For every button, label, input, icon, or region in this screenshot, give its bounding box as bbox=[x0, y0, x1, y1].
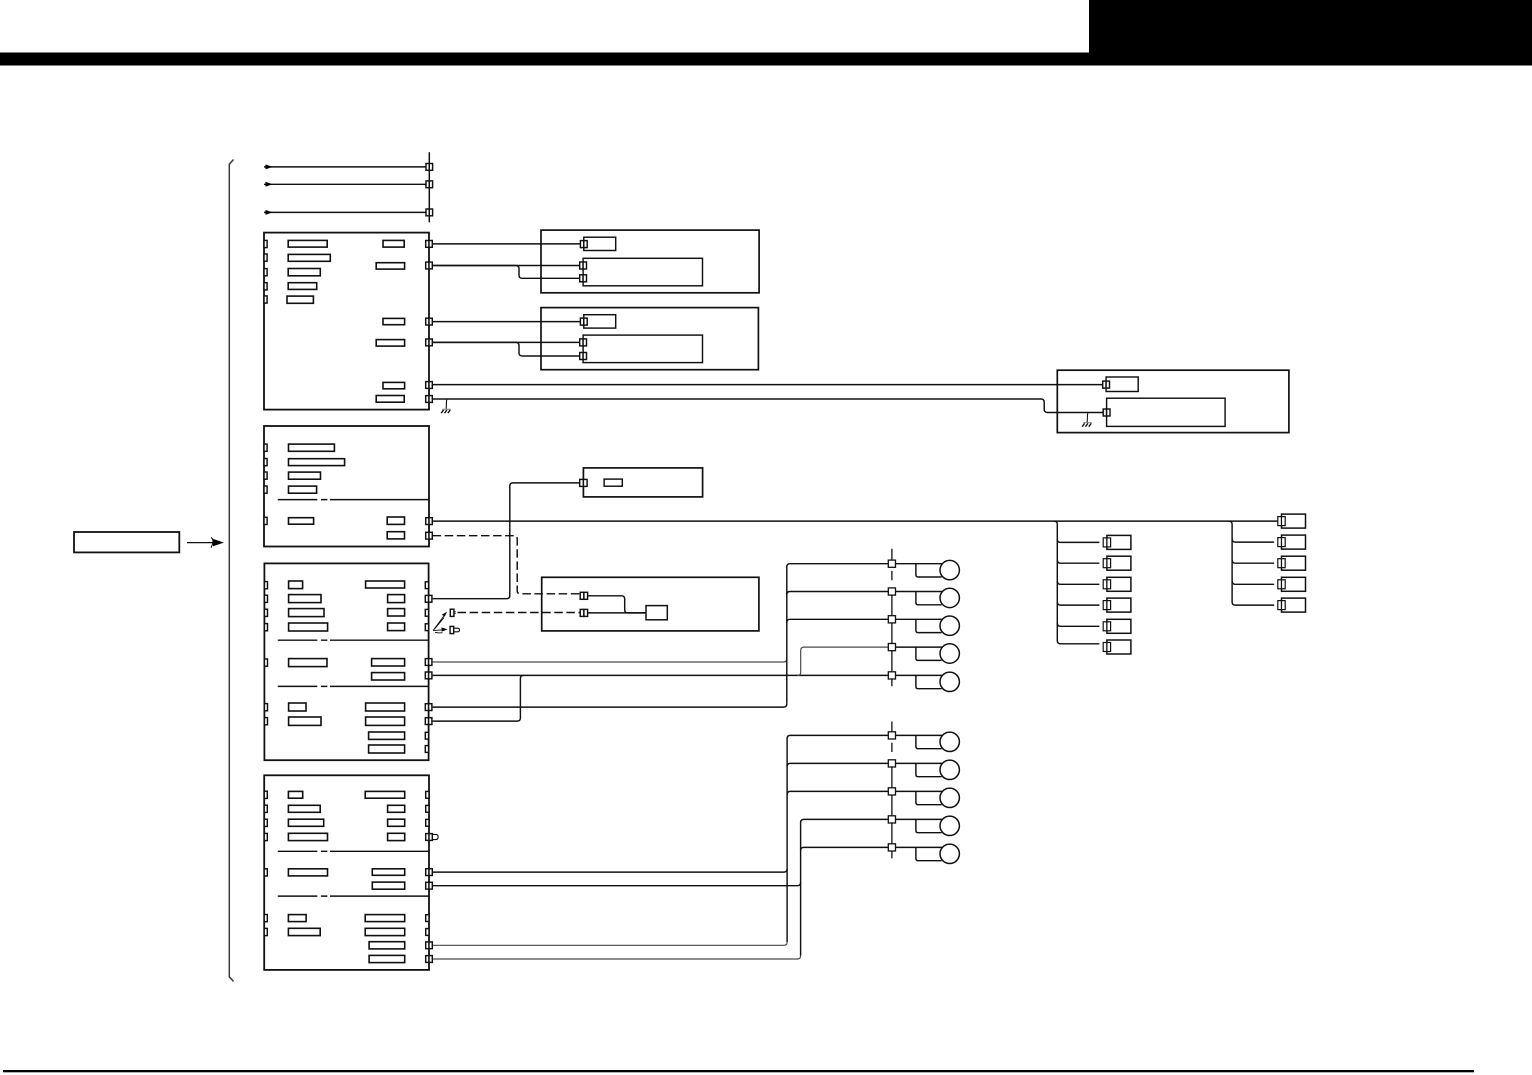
block H left pins bbox=[264, 791, 267, 935]
wire F-s2b (to lamp rows 4/5) bbox=[433, 674, 889, 676]
pcb box C outline bbox=[1057, 370, 1289, 432]
C big module pin bbox=[1103, 409, 1110, 416]
lamp L2 bbox=[896, 762, 943, 764]
B1 small module bbox=[584, 237, 616, 250]
label bar bbox=[369, 955, 405, 962]
connector socket P2 bbox=[1107, 556, 1131, 570]
connector pin bbox=[426, 241, 429, 248]
connector pin bbox=[426, 942, 429, 949]
ground (frame) bbox=[1086, 413, 1089, 422]
label bar bbox=[289, 518, 314, 525]
connector pin bbox=[425, 595, 428, 602]
V3 elbow to lamp row L5 bbox=[801, 847, 889, 850]
lamp L1 bbox=[896, 734, 943, 736]
connector pin bbox=[264, 659, 267, 666]
label bar bbox=[376, 263, 404, 269]
wire A1 bbox=[433, 243, 581, 245]
lamp L4 bbox=[896, 818, 943, 820]
connector pin bbox=[580, 262, 583, 269]
connector pin (unmated) bbox=[425, 624, 428, 631]
wire H-s3b (to V3 bottom) bbox=[433, 956, 801, 959]
upper lamp junctions bbox=[888, 560, 895, 567]
connector pin bbox=[580, 275, 583, 282]
connector pin (unmated) bbox=[426, 805, 429, 812]
label bar bbox=[288, 869, 327, 876]
lamp L3 bbox=[896, 790, 943, 792]
connector pin bbox=[426, 882, 429, 889]
label bar bbox=[288, 833, 327, 840]
B2 small module bbox=[584, 315, 616, 328]
label bar bbox=[366, 717, 405, 725]
label bar bbox=[289, 581, 303, 589]
pcb box E outline bbox=[583, 468, 702, 497]
block H right pins bbox=[426, 791, 433, 962]
V1 elbow to lamp row 3 bbox=[787, 619, 889, 622]
label bar bbox=[372, 882, 404, 889]
connector socket P4 bbox=[1107, 598, 1131, 612]
connector pin bbox=[264, 595, 267, 602]
G relay module bbox=[646, 606, 667, 620]
connector pin (unmated) bbox=[426, 929, 429, 936]
wire H-s2b (to V3) bbox=[433, 883, 801, 886]
connector pin bbox=[264, 240, 267, 247]
connector pin bbox=[264, 791, 267, 798]
wiring block D outline bbox=[264, 426, 429, 547]
ground (frame) bbox=[445, 400, 448, 409]
label bar bbox=[288, 269, 320, 276]
label bar bbox=[289, 623, 328, 631]
bus elbow bbox=[1057, 560, 1099, 563]
label bar bbox=[288, 791, 302, 798]
label bar bbox=[288, 254, 330, 261]
label bar bbox=[388, 805, 405, 812]
B2 module pin bbox=[580, 318, 587, 325]
input line 3 bbox=[264, 211, 426, 213]
connector socket P3 bbox=[1107, 577, 1131, 591]
header rule bar bbox=[0, 53, 1532, 66]
connector pin bbox=[426, 956, 429, 963]
connector socket Q3 bbox=[1282, 556, 1306, 570]
connector pin (unmated) bbox=[426, 915, 429, 922]
connector pin (unmated) bbox=[425, 582, 428, 589]
vertical V2 (feeds lower lamps 1-3) bbox=[787, 735, 888, 942]
label bar bbox=[365, 928, 405, 935]
E module bbox=[604, 479, 622, 486]
connector pin bbox=[426, 262, 429, 269]
connector pin bbox=[426, 834, 429, 841]
lamp U4 bbox=[896, 646, 943, 648]
wiring block A outline bbox=[264, 233, 429, 410]
block F divider 2 bbox=[278, 685, 429, 687]
dashed lead to box G pin bbox=[458, 612, 581, 614]
label bar bbox=[376, 340, 404, 347]
label bar bbox=[388, 609, 405, 616]
label bar bbox=[289, 659, 327, 667]
block A right pins bbox=[426, 241, 433, 403]
wire F-s3a (to vertical V1 bottom) bbox=[433, 704, 787, 707]
wire F-s2a (to vertical V1) bbox=[433, 659, 787, 662]
V2 elbow to lamp row L3 bbox=[787, 791, 888, 794]
connector pin (unmated) bbox=[426, 819, 429, 826]
label bar bbox=[365, 915, 405, 922]
connector pin bbox=[426, 339, 429, 346]
lamp U2 bbox=[896, 591, 943, 593]
connector pin bbox=[1103, 409, 1106, 416]
wire D1 (long bus) bbox=[433, 520, 1278, 522]
wiring block F outline bbox=[264, 563, 428, 760]
connector pin bbox=[580, 241, 583, 248]
label bar bbox=[289, 486, 317, 493]
connector pin bbox=[426, 518, 429, 525]
wire A4 with branch bbox=[433, 341, 581, 343]
pcb box B2 outline bbox=[541, 308, 758, 370]
E pin bbox=[580, 479, 587, 486]
lamp U1 bbox=[896, 563, 943, 565]
block H divider 1 bbox=[278, 850, 429, 852]
label bar bbox=[288, 915, 306, 922]
bus elbow bbox=[1057, 581, 1099, 584]
callout arrow bbox=[187, 542, 215, 544]
connector pin bbox=[580, 609, 584, 616]
label bar bbox=[288, 240, 327, 247]
detached connector half (lower, with stub) bbox=[450, 626, 454, 633]
G pins bbox=[580, 592, 587, 616]
label bar bbox=[376, 396, 404, 403]
label bar bbox=[387, 532, 404, 539]
B1 module pin bbox=[580, 241, 587, 248]
B2 big module pins bbox=[580, 339, 587, 360]
lower lamp junctions bbox=[888, 732, 895, 739]
bus elbow bbox=[1057, 539, 1099, 542]
upper lamp bus (dash-dot vertical) bbox=[891, 549, 893, 687]
label bar bbox=[388, 623, 405, 631]
connector socket P5 bbox=[1107, 619, 1131, 633]
label bar bbox=[383, 240, 404, 247]
bus branch vertical (right column) bbox=[1229, 521, 1274, 605]
connector socket P1 bbox=[1107, 535, 1131, 549]
connector pin bbox=[264, 283, 267, 290]
branch up to lamp row 4 bbox=[798, 647, 889, 675]
block D right pins bbox=[426, 518, 433, 539]
connector pin bbox=[264, 704, 267, 711]
label bar bbox=[289, 717, 321, 725]
pcb box B1 outline bbox=[541, 230, 759, 293]
connector pin bbox=[426, 382, 429, 389]
connector pin bbox=[426, 318, 429, 325]
bus elbow bbox=[1057, 602, 1099, 605]
E wire down to block F bbox=[433, 483, 581, 599]
connector pin bbox=[264, 459, 267, 466]
input line 2 bbox=[264, 183, 426, 185]
input line 1 bbox=[264, 166, 426, 168]
connector pin bbox=[426, 181, 429, 188]
label bar bbox=[289, 595, 321, 603]
B2 big module bbox=[583, 335, 702, 363]
V1 elbow to lamp row 2 bbox=[787, 592, 889, 595]
B1 big module pins bbox=[580, 262, 587, 282]
input pins bbox=[426, 164, 433, 216]
bus elbow bbox=[1232, 581, 1274, 584]
connector pin bbox=[264, 444, 267, 451]
connector socket P6 bbox=[1107, 640, 1131, 654]
wire A2 with branch bbox=[433, 265, 581, 267]
big bracket (brace) bbox=[229, 160, 233, 982]
connector pin bbox=[264, 928, 267, 935]
label bar bbox=[288, 928, 320, 935]
connector pin (unmated) bbox=[425, 746, 428, 753]
bus elbow bbox=[1232, 560, 1274, 563]
block H divider 2 bbox=[278, 895, 429, 897]
label box (empty callout) bbox=[74, 532, 179, 552]
connector pin bbox=[264, 609, 267, 616]
label bar bbox=[388, 833, 405, 840]
connector pin bbox=[264, 517, 267, 524]
lamp L5 bbox=[896, 846, 943, 848]
label bar bbox=[289, 609, 324, 617]
label bar bbox=[369, 732, 405, 739]
label bar bbox=[372, 673, 405, 680]
label bar bbox=[366, 581, 405, 588]
pcb box G outline bbox=[542, 577, 759, 631]
connector pin bbox=[264, 472, 267, 479]
label bar bbox=[369, 745, 405, 753]
label bar bbox=[388, 819, 405, 826]
connector pin (unmated) bbox=[425, 732, 428, 739]
connector pin bbox=[580, 339, 583, 346]
label bar bbox=[289, 703, 306, 711]
connector pin bbox=[264, 624, 267, 631]
label bar bbox=[289, 472, 321, 479]
lower lamp bus (dash-dot vertical) bbox=[891, 722, 893, 859]
lamp U5 bbox=[896, 674, 943, 676]
bus elbow bbox=[1232, 539, 1274, 542]
label bar bbox=[287, 296, 313, 303]
connector pin bbox=[425, 718, 428, 725]
label bar bbox=[369, 942, 405, 949]
connector pin bbox=[264, 915, 267, 922]
connector socket Q5 bbox=[1282, 598, 1306, 612]
connector socket Q2 bbox=[1282, 535, 1306, 549]
connector pin bbox=[264, 869, 267, 876]
label bar bbox=[288, 283, 317, 290]
bus elbow bbox=[1057, 623, 1099, 626]
lamp U3 bbox=[896, 618, 943, 620]
wire H-s2a (to V2) bbox=[433, 869, 787, 872]
block F left pins bbox=[264, 582, 267, 725]
header black box (top-right masthead) bbox=[1089, 0, 1532, 54]
connector pin bbox=[426, 164, 429, 171]
wire A6 (long, jog) bbox=[433, 399, 1103, 413]
B1 big module bbox=[583, 258, 702, 286]
G wire pin2 to relay bbox=[588, 612, 646, 614]
wiring block H outline bbox=[264, 775, 429, 970]
connector pin bbox=[425, 704, 428, 711]
connector pin bbox=[426, 532, 429, 539]
connector pin bbox=[580, 353, 583, 360]
connector pin bbox=[425, 672, 428, 679]
block D divider bbox=[278, 499, 429, 501]
label bar bbox=[366, 703, 405, 711]
connector pin bbox=[264, 269, 267, 276]
connector pin bbox=[264, 819, 267, 826]
label bar bbox=[387, 517, 404, 524]
block F divider 1 bbox=[278, 639, 429, 641]
connector pin bbox=[264, 718, 267, 725]
bus branch vertical (left column) bbox=[1054, 521, 1099, 644]
connector pin bbox=[1103, 381, 1106, 388]
block D left pins bbox=[264, 444, 267, 524]
label bar bbox=[289, 444, 335, 451]
connector pin bbox=[264, 486, 267, 493]
label bar bbox=[388, 595, 405, 603]
wire H-s3a (to V2 bottom) bbox=[433, 942, 787, 945]
connector pin bbox=[580, 479, 584, 486]
block A left pins bbox=[264, 240, 267, 303]
wire A5 (long) bbox=[433, 384, 1103, 386]
V2 elbow to lamp row L2 bbox=[787, 763, 888, 766]
wire F-s3b (up to s2b wire) bbox=[433, 675, 524, 721]
C small module bbox=[1106, 377, 1138, 392]
connector socket Q1 bbox=[1282, 514, 1306, 528]
connector pin bbox=[264, 805, 267, 812]
C module pin bbox=[1103, 381, 1110, 388]
label bar bbox=[383, 382, 405, 388]
wire D2 (dashed) bbox=[433, 536, 581, 594]
block H stub plug bbox=[432, 834, 438, 839]
label bar bbox=[288, 819, 323, 826]
block F right pins bbox=[425, 582, 432, 753]
footer rule bbox=[3, 1070, 1474, 1072]
connector pin bbox=[425, 659, 428, 666]
label bar bbox=[288, 805, 320, 812]
connector pin bbox=[580, 318, 583, 325]
label bar bbox=[365, 791, 405, 798]
connector pin bbox=[580, 592, 584, 599]
wire A3 bbox=[433, 321, 581, 323]
connector pin bbox=[264, 296, 267, 303]
connector pin bbox=[264, 582, 267, 589]
connector pin bbox=[426, 209, 429, 216]
label bar bbox=[372, 869, 404, 876]
detached connector half (upper) bbox=[450, 609, 454, 616]
G wire pin1 to relay bbox=[588, 596, 646, 613]
connector pin bbox=[426, 396, 429, 403]
input connector strip edge bbox=[428, 152, 430, 222]
vertical V1 (feeds upper lamps 1-3) bbox=[787, 564, 889, 704]
annotation arrows bbox=[433, 612, 448, 633]
connector pin bbox=[426, 869, 429, 876]
label bar bbox=[289, 459, 345, 466]
connector pin (unmated) bbox=[425, 609, 428, 616]
vertical V3 (feeds lower lamps 4-5) bbox=[801, 819, 889, 955]
connector pin bbox=[264, 254, 267, 261]
label bar bbox=[372, 659, 405, 666]
connector pin (unmated) bbox=[426, 791, 429, 798]
connector socket Q4 bbox=[1282, 577, 1306, 591]
connector pin bbox=[264, 833, 267, 840]
label bar bbox=[383, 318, 405, 324]
C big module bbox=[1107, 398, 1226, 426]
